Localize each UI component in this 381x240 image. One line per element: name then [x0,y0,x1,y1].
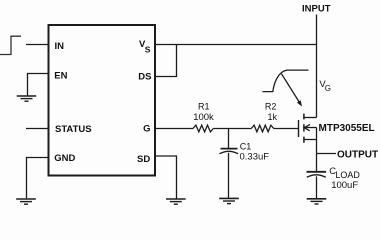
input rail wire [316,15,318,118]
svg-text:100uF: 100uF [331,180,358,191]
wire OUTPUT tap [317,153,337,155]
wire IN pin [26,44,49,46]
resistor R1 [193,125,213,132]
wire R1 to R2 [213,128,251,130]
ground C1 [219,198,239,203]
wire EN pin [28,74,49,96]
svg-text:C1: C1 [240,141,252,151]
wire GND pin [27,158,49,199]
svg-text:R1: R1 [198,101,210,111]
annotation arrow gate drive curve [262,70,308,92]
svg-text:G: G [143,123,150,134]
transistor Q1 MTP3055EL [299,114,317,143]
IC U1 box [49,25,156,176]
input step waveform [0,36,21,54]
svg-text:100k: 100k [193,112,214,123]
svg-text:GND: GND [54,153,75,164]
wire SD pin to ground [155,156,177,199]
ground CLOAD [307,199,327,204]
svg-text:IN: IN [55,41,65,52]
wire R2 to gate [274,128,299,130]
svg-text:SD: SD [137,154,150,165]
source to output rail wire [316,140,318,172]
ground GND [16,199,36,204]
svg-text:INPUT: INPUT [302,4,331,15]
capacitor C1 [220,129,239,199]
svg-text:S: S [145,45,151,55]
annotation arrow shaft [282,74,300,102]
svg-text:STATUS: STATUS [55,124,92,135]
svg-text:DS: DS [138,72,151,83]
svg-text:1k: 1k [268,112,278,122]
svg-text:MTP3055EL: MTP3055EL [319,123,375,134]
capacitor CLOAD [307,172,327,199]
ground EN [17,96,37,101]
resistor R2 [251,125,273,132]
svg-text:EN: EN [54,70,67,81]
wire STATUS stub [26,128,49,130]
annotation arrowhead [297,100,302,106]
svg-text:0.33uF: 0.33uF [240,152,270,163]
wire DS to VS [155,45,177,77]
svg-text:G: G [325,84,331,93]
ground SD [166,199,186,204]
svg-text:LOAD: LOAD [335,170,360,180]
wire G pin to R1 [155,128,193,130]
wire VS to input rail [155,44,317,46]
svg-text:OUTPUT: OUTPUT [337,150,378,161]
svg-text:R2: R2 [265,101,277,111]
